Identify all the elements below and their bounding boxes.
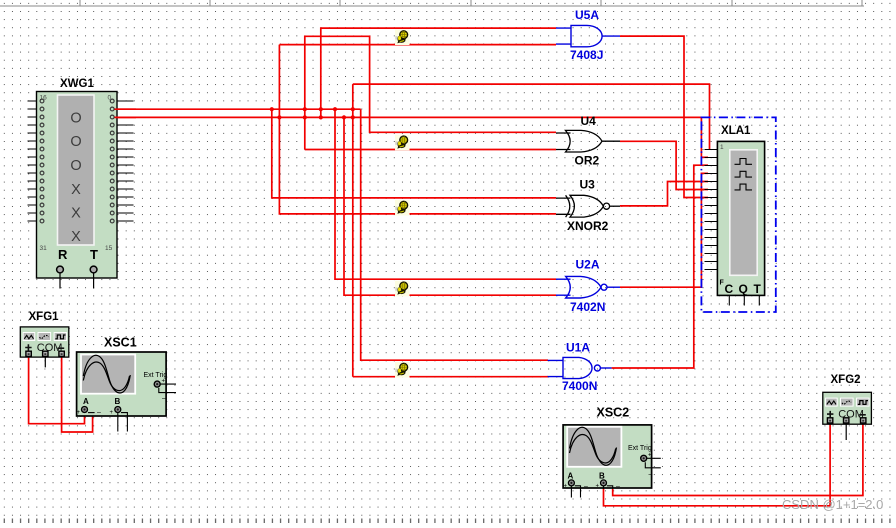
- wire bus2 from XWG1 pin2: [115, 116, 702, 118]
- svg-text:–: –: [584, 483, 588, 490]
- XWG1 right pin circles: [110, 99, 114, 223]
- svg-text:U1A: U1A: [566, 341, 590, 355]
- XSC1 channel B terminal: [110, 407, 128, 432]
- wire U2A output to XLA1 pin4: [620, 173, 708, 287]
- label U1A: [566, 341, 590, 355]
- svg-text:+: +: [596, 484, 600, 490]
- XFG2 plus COM minus labels: [827, 409, 866, 421]
- wire U1A input B net: [353, 376, 548, 378]
- XLA1 screen waveform glyphs: [735, 159, 753, 190]
- svg-text:7402N: 7402N: [570, 300, 605, 314]
- junction dots on bus2: [277, 115, 355, 119]
- svg-text:U2A: U2A: [576, 258, 600, 272]
- XSC2 Ext Trig terminal: [641, 453, 661, 479]
- wire U1A input A net: [361, 109, 548, 360]
- xnor-gate U3 output bubble: [603, 203, 609, 209]
- XSC1 Ext Trig label: [144, 372, 168, 379]
- XSC1 channel A label: [83, 397, 89, 406]
- svg-text:XSC2: XSC2: [597, 406, 630, 420]
- svg-text:+: +: [110, 410, 114, 416]
- nand-gate U1A body: [563, 357, 592, 378]
- XSC1 screen: [81, 355, 135, 394]
- svg-text:O: O: [70, 158, 81, 174]
- svg-text:T: T: [90, 247, 98, 262]
- logic analyzer XLA1 selection dashed box: [701, 117, 775, 312]
- svg-text:XSC1: XSC1: [104, 336, 137, 350]
- nor-gate U2A output bubble: [601, 284, 607, 290]
- label XLA1: [721, 125, 751, 137]
- value label 7400N: [562, 379, 597, 393]
- or-gate U4 output pin stub: [602, 140, 620, 142]
- svg-text:XNOR2: XNOR2: [567, 219, 609, 233]
- svg-text:+: +: [564, 484, 568, 490]
- XWG1 R T labels: [58, 247, 98, 262]
- XSC2 channel B label: [599, 472, 605, 481]
- svg-text:31: 31: [40, 245, 48, 252]
- svg-text:+: +: [648, 453, 652, 459]
- wire U5A input A net: [321, 28, 556, 117]
- wire XSC2 B to XFG2 plus: [604, 424, 831, 506]
- wire bus2 to XLA1 pin2: [701, 117, 708, 157]
- svg-text:CSDN @1+1=2.0: CSDN @1+1=2.0: [782, 497, 883, 512]
- junction dots on bus1: [270, 107, 355, 111]
- svg-text:XFG1: XFG1: [29, 311, 60, 323]
- svg-text:XLA1: XLA1: [721, 125, 751, 137]
- svg-text:XFG2: XFG2: [831, 374, 861, 386]
- XWG1 R terminal: [57, 266, 64, 273]
- XWG1 left pin stubs: [28, 101, 37, 221]
- wire U4 input B net: [305, 149, 556, 151]
- value label 7402N: [570, 300, 605, 314]
- svg-text:T: T: [754, 282, 762, 296]
- svg-text:B: B: [115, 397, 121, 406]
- probe on U2A input B wire: [395, 281, 410, 297]
- XWG1 right pin stubs: [117, 101, 134, 221]
- probe on U3 input B wire: [395, 200, 410, 216]
- nand-gate U1A input pin stubs: [548, 360, 563, 376]
- probe on U1A input B wire: [395, 362, 410, 378]
- wire XFG1 minus to XSC1 A minus: [62, 357, 93, 432]
- nor-gate U2A output pin stub: [607, 286, 620, 288]
- svg-text:O: O: [70, 134, 81, 150]
- svg-text:X: X: [71, 229, 81, 245]
- svg-text:15: 15: [105, 245, 113, 252]
- svg-text:+: +: [77, 410, 81, 416]
- svg-text:–: –: [649, 471, 653, 478]
- svg-text:Q: Q: [739, 282, 748, 296]
- svg-text:C: C: [725, 282, 734, 296]
- xnor-gate U3 input pin stubs: [556, 198, 571, 214]
- function generator XFG2 box: [823, 392, 872, 424]
- wire bus1 from XWG1 pin1: [115, 108, 361, 110]
- XWG1 pattern letters: [70, 111, 81, 246]
- XSC1 Ext Trig terminal: [154, 379, 176, 403]
- label U4: [581, 114, 597, 128]
- and-gate U5A input pin stubs: [556, 28, 571, 44]
- nor-gate U2A input pin stubs: [556, 279, 571, 295]
- nor-gate U2A body: [566, 276, 601, 298]
- svg-text:U5A: U5A: [575, 8, 599, 22]
- svg-text:U4: U4: [581, 114, 597, 128]
- or-gate U4 body: [566, 130, 603, 152]
- XWG1 left pin circles: [40, 99, 44, 223]
- wire U3 output to XLA1 pin5: [620, 182, 708, 206]
- svg-text:R: R: [58, 247, 68, 262]
- XWG1 T terminal: [90, 266, 97, 273]
- XFG1 plus COM minus labels: [25, 342, 64, 354]
- nand-gate U1A output bubble: [594, 365, 600, 371]
- label XSC1: [104, 336, 137, 350]
- wire U4 output to XLA1 pin6: [620, 141, 708, 189]
- xnor-gate U3 output pin stub: [610, 205, 620, 207]
- XWG1 R T terminal stubs: [60, 273, 94, 289]
- XSC1 channel B label: [115, 397, 121, 406]
- svg-text:XWG1: XWG1: [60, 78, 94, 90]
- value label 7408J: [570, 48, 603, 62]
- and-gate U5A output pin stub: [602, 35, 620, 37]
- value label XNOR2: [567, 219, 609, 233]
- logic analyzer XLA1 box: [717, 141, 764, 295]
- svg-text:7400N: 7400N: [562, 379, 597, 393]
- svg-text:–: –: [162, 395, 166, 402]
- XFG1 terminals: [26, 351, 64, 356]
- svg-text:–: –: [616, 484, 620, 491]
- and-gate U5A body: [571, 25, 602, 46]
- XFG2 waveform buttons: [825, 398, 870, 407]
- XLA1 C Q T labels: [725, 282, 762, 296]
- svg-text:X: X: [71, 182, 81, 198]
- svg-text:U3: U3: [580, 178, 596, 192]
- XFG2 COM stub: [845, 424, 847, 441]
- svg-text:1: 1: [720, 144, 724, 151]
- svg-text:OR2: OR2: [575, 154, 600, 168]
- sheet bottom border ticks: [4, 519, 890, 524]
- svg-text:7408J: 7408J: [570, 48, 603, 62]
- wire XFG1 plus to XSC1 A: [29, 357, 85, 424]
- wire XSC2 B minus to XFG2 minus: [613, 424, 863, 496]
- XLA1 bottom pin stubs: [729, 295, 759, 305]
- wire U1A output to XLA1 pin3: [612, 165, 708, 368]
- label XFG2: [831, 374, 861, 386]
- oscilloscope XSC2 box: [563, 425, 652, 488]
- XWG1 corner pin numbers 16 0 31 15: [40, 95, 113, 253]
- wire U3 input A net: [272, 109, 556, 198]
- XSC1 channel A terminal: [77, 407, 102, 417]
- word generator XWG1 box: [37, 92, 118, 279]
- label U5A: [575, 8, 599, 22]
- label XFG1: [29, 311, 60, 323]
- xnor-gate U3 body: [566, 195, 604, 217]
- XFG2 terminals: [827, 418, 866, 423]
- wire XLA1 pin1 net: [353, 84, 710, 377]
- or-gate U4 input pin stubs: [556, 133, 571, 150]
- svg-text:–: –: [97, 410, 101, 417]
- wire overlay at XWG1 output pins: [115, 109, 137, 117]
- label XWG1: [60, 78, 94, 90]
- svg-text:A: A: [83, 397, 89, 406]
- XLA1 F label: [720, 280, 725, 287]
- label U2A: [576, 258, 600, 272]
- XFG1 waveform buttons: [23, 332, 68, 341]
- probe on U5A input B wire: [395, 30, 410, 46]
- XSC2 screen: [567, 427, 621, 467]
- svg-text:A: A: [568, 472, 574, 481]
- svg-text:O: O: [70, 111, 81, 127]
- nand-gate U1A output pin stub: [600, 367, 611, 369]
- probe on U4 input B wire: [395, 135, 410, 151]
- wire U5A output to XLA1 pin7: [620, 36, 708, 197]
- XLA1 pin 1 number: [720, 144, 724, 151]
- XLA1 left pin stubs: [705, 150, 718, 270]
- watermark CSDN: [782, 497, 883, 512]
- function generator XFG1 box: [20, 327, 69, 357]
- XSC2 channel A terminal: [564, 480, 589, 498]
- wire U5A input B / U3 input B net: [279, 45, 556, 214]
- label U3: [580, 178, 596, 192]
- svg-text:X: X: [71, 206, 81, 222]
- svg-text:B: B: [599, 472, 605, 481]
- svg-text:+: +: [162, 379, 166, 385]
- XSC2 Ext Trig label: [628, 445, 652, 452]
- oscilloscope XSC1 box: [77, 352, 167, 416]
- label XSC2: [597, 406, 630, 420]
- value label OR2: [575, 154, 600, 168]
- svg-text:Ext Trig: Ext Trig: [628, 445, 652, 452]
- XFG1 COM stub: [44, 357, 46, 367]
- XSC2 channel A label: [568, 472, 574, 481]
- wire U2A input B net: [344, 117, 556, 295]
- wire U4 input A net: [305, 36, 556, 149]
- XSC2 channel B terminal: [596, 480, 621, 491]
- wire U2A input A net: [335, 109, 556, 279]
- sheet top border line: [0, 0, 864, 6]
